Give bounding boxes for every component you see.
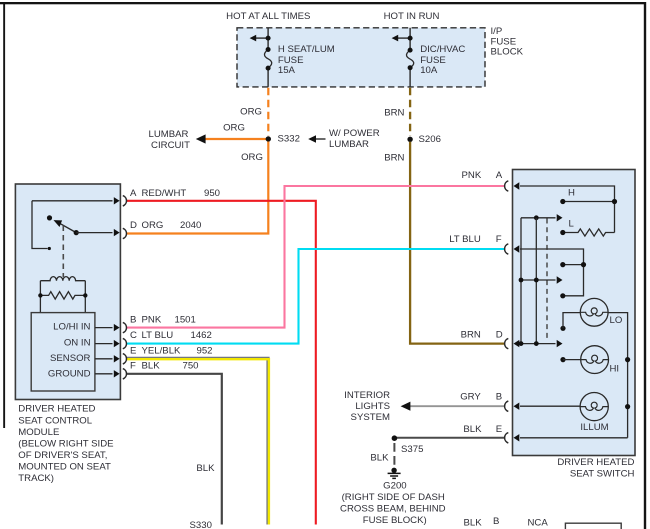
fuse F2 node upper — [408, 48, 413, 53]
module connector arc pin B — [123, 322, 127, 332]
arrowhead interior lights — [401, 402, 411, 411]
LO contact node and riser — [560, 326, 565, 331]
svg-text:S330: S330 — [190, 520, 212, 529]
svg-text:S206: S206 — [419, 134, 441, 145]
module connector arc pin F — [123, 369, 127, 379]
ON upper contact node — [560, 262, 565, 267]
svg-text:LUMBAR: LUMBAR — [149, 129, 189, 140]
fuse F1 node upper — [266, 47, 271, 52]
wire BLK switch pin E to S375 — [395, 437, 505, 439]
wire ORG solid S332 to module pin D — [127, 142, 269, 234]
splice S332 — [266, 136, 271, 141]
svg-text:HOT IN RUN: HOT IN RUN — [384, 11, 440, 22]
svg-text:CIRCUIT: CIRCUIT — [151, 140, 190, 151]
svg-text:LO: LO — [610, 315, 623, 326]
svg-text:(BELOW RIGHT SIDE: (BELOW RIGHT SIDE — [18, 438, 113, 449]
svg-text:2040: 2040 — [180, 220, 201, 231]
svg-text:PNK: PNK — [462, 170, 482, 181]
module resistor node left — [38, 293, 42, 297]
svg-text:BRN: BRN — [384, 153, 404, 164]
svg-text:B: B — [496, 392, 502, 403]
resistor H-L — [563, 229, 615, 236]
branch to upper ON contact — [565, 264, 584, 266]
wire GRY to interior lights — [409, 405, 504, 407]
svg-text:H SEAT/LUM: H SEAT/LUM — [278, 44, 335, 55]
module resistor node right — [83, 293, 87, 297]
wire BRN solid S206 to switch pin D — [410, 142, 504, 344]
junction node H row right — [612, 199, 617, 204]
node wiper1 — [534, 215, 539, 220]
switch pin E internal wire — [520, 437, 628, 439]
svg-text:952: 952 — [197, 345, 213, 356]
svg-text:D: D — [130, 220, 137, 231]
wire LO lamp to right bus — [608, 313, 628, 438]
svg-text:DRIVER HEATED: DRIVER HEATED — [557, 457, 634, 468]
svg-text:PNK: PNK — [142, 315, 162, 326]
svg-text:L: L — [569, 219, 575, 230]
svg-text:ORG: ORG — [240, 107, 262, 118]
svg-text:SENSOR: SENSOR — [50, 353, 91, 364]
splice S375 — [392, 435, 398, 441]
svg-text:LO/HI IN: LO/HI IN — [53, 322, 90, 333]
svg-text:BLK: BLK — [142, 361, 161, 372]
svg-text:A: A — [496, 170, 503, 181]
svg-text:LIGHTS: LIGHTS — [355, 401, 390, 412]
node wiper2 left — [519, 278, 524, 283]
lamp LO — [580, 298, 608, 326]
lamp HI — [581, 346, 609, 374]
module connector arc pin C — [123, 338, 127, 348]
svg-text:S332: S332 — [278, 134, 300, 145]
module connector arc pin A — [123, 196, 127, 206]
node ILLUM right bus — [625, 404, 630, 409]
wire ORG dashed from fuse F1 to S332 — [267, 88, 269, 136]
fuse F2 node top — [408, 36, 413, 41]
svg-text:950: 950 — [204, 188, 220, 199]
L contact node — [560, 230, 565, 235]
wire ORG arrow to lumbar circuit — [204, 138, 266, 140]
bus vertical 2 — [535, 218, 537, 344]
svg-text:HOT AT ALL TIMES: HOT AT ALL TIMES — [226, 11, 310, 22]
svg-text:ORG: ORG — [223, 123, 245, 134]
fuse F2 DIC/HVAC vertical wire — [409, 28, 411, 87]
module pin A internal wire with arrow — [32, 200, 113, 202]
svg-text:H: H — [568, 188, 575, 199]
svg-text:1462: 1462 — [191, 330, 212, 341]
left border — [3, 2, 5, 428]
svg-text:F: F — [496, 234, 502, 245]
svg-text:OF DRIVER'S SEAT,: OF DRIVER'S SEAT, — [18, 450, 107, 461]
svg-text:W/ POWER: W/ POWER — [329, 128, 380, 139]
wire BLK dashed to ground — [393, 443, 395, 467]
svg-text:SYSTEM: SYSTEM — [351, 412, 390, 423]
driver heated seat control module box — [15, 184, 120, 400]
svg-text:ORG: ORG — [142, 220, 164, 231]
svg-text:MODULE: MODULE — [18, 427, 59, 438]
wire BLK module pin F down to S330 — [127, 374, 222, 525]
wire PNK module pin B to switch pin A — [127, 186, 505, 328]
module heater coil — [40, 277, 85, 281]
svg-text:RED/WHT: RED/WHT — [142, 188, 187, 199]
svg-text:TRACK): TRACK) — [18, 473, 54, 484]
module connector arc pin E — [123, 354, 127, 364]
splice S206 — [407, 137, 412, 142]
driver heated seat switch box — [513, 170, 636, 456]
module switch lower contact point — [48, 247, 51, 250]
bottom cut-off box — [565, 523, 621, 529]
fuse F1 feed arrow — [256, 37, 268, 39]
module pin B internal arrow — [95, 327, 113, 329]
node pin D bus 1 — [519, 341, 524, 346]
module pin D internal wire with arrow — [76, 232, 112, 234]
HI contact node — [560, 357, 565, 362]
svg-text:D: D — [496, 329, 503, 340]
module switch pivot node — [74, 230, 79, 235]
switch connector arc pin E — [505, 433, 509, 443]
wire HI contact to lamp — [563, 359, 581, 361]
svg-text:15A: 15A — [278, 65, 296, 76]
module coil left leg — [39, 281, 41, 313]
node pin D bus 2 — [534, 341, 539, 346]
switch pin A internal wire to H network — [520, 186, 615, 233]
svg-text:LT BLU: LT BLU — [142, 330, 174, 341]
H contact node — [560, 199, 565, 204]
svg-text:BLK: BLK — [196, 463, 215, 474]
svg-text:FUSE BLOCK): FUSE BLOCK) — [363, 515, 427, 526]
bus vertical 1 — [520, 218, 522, 344]
svg-text:10A: 10A — [420, 65, 438, 76]
svg-text:750: 750 — [183, 361, 199, 372]
svg-text:BRN: BRN — [384, 108, 404, 119]
svg-text:GROUND: GROUND — [48, 369, 91, 380]
module internal wire down-left of switch — [32, 201, 48, 249]
switch pin B internal wire to ILLUM — [520, 405, 580, 407]
node HI right bus — [625, 357, 630, 362]
arrow W/ POWER LUMBAR — [316, 138, 326, 140]
svg-text:SEAT CONTROL: SEAT CONTROL — [18, 415, 92, 426]
svg-text:HI: HI — [610, 364, 620, 375]
svg-text:ILLUM: ILLUM — [580, 422, 608, 433]
wiper 3 arrow — [557, 340, 563, 347]
module pin C internal arrow — [95, 343, 113, 345]
ON lower contact node — [560, 293, 565, 298]
right border — [644, 2, 646, 529]
node ON branch — [581, 262, 586, 267]
svg-text:BLOCK: BLOCK — [491, 47, 524, 58]
lamp ILLUM — [580, 393, 608, 421]
module mechanical linkage dashed — [62, 226, 64, 278]
svg-text:ON IN: ON IN — [64, 337, 91, 348]
svg-text:C: C — [130, 330, 137, 341]
svg-text:B: B — [130, 315, 136, 326]
svg-text:BRN: BRN — [461, 329, 481, 340]
switch pin D internal wire — [520, 343, 556, 345]
wire RED/WHT module pin A down right side — [127, 201, 316, 525]
wiper 1 H/L selector — [521, 217, 556, 219]
svg-text:BLK: BLK — [464, 518, 483, 529]
svg-text:SEAT SWITCH: SEAT SWITCH — [570, 468, 635, 479]
svg-text:ORG: ORG — [241, 152, 263, 163]
H contact branch — [563, 201, 615, 203]
svg-text:(RIGHT SIDE OF DASH: (RIGHT SIDE OF DASH — [342, 492, 445, 503]
svg-text:MOUNTED ON SEAT: MOUNTED ON SEAT — [18, 461, 111, 472]
switch connector arc pin F — [505, 244, 509, 254]
module pin E internal arrow — [95, 358, 113, 360]
module coil right leg — [84, 281, 86, 313]
fuse F2 element — [407, 50, 414, 68]
svg-text:A: A — [130, 188, 137, 199]
fuse F1 node lower — [266, 66, 271, 71]
svg-text:E: E — [496, 424, 502, 435]
module pin F internal arrow — [95, 373, 113, 375]
ground G200 symbol — [391, 468, 396, 473]
svg-text:NCA: NCA — [528, 518, 549, 529]
svg-text:YEL/BLK: YEL/BLK — [142, 345, 182, 356]
fuse F1 H SEAT/LUM vertical wire — [267, 28, 269, 87]
wire LT BLU module pin C to switch pin F — [127, 249, 505, 344]
module connector arc pin D — [123, 228, 127, 238]
svg-text:INTERIOR: INTERIOR — [344, 390, 390, 401]
switch connector arc pin D — [505, 338, 509, 348]
svg-text:LUMBAR: LUMBAR — [329, 139, 369, 150]
switch connector arc pin A — [505, 181, 509, 191]
svg-text:DIC/HVAC: DIC/HVAC — [420, 44, 465, 55]
I/P fuse block box — [237, 28, 485, 87]
fuse F2 node lower — [408, 65, 413, 70]
module inner control box — [31, 313, 95, 391]
svg-text:BLK: BLK — [463, 424, 482, 435]
module sensor resistor — [40, 292, 85, 299]
wiper 2 ON selector — [521, 279, 556, 281]
svg-text:G200: G200 — [383, 481, 406, 492]
svg-text:F: F — [130, 361, 136, 372]
wire YEL/BLK module pin E down (black stripe edge) — [127, 358, 269, 524]
svg-text:B: B — [493, 516, 499, 527]
module switch upper contact — [47, 215, 52, 220]
top border — [0, 2, 646, 4]
svg-text:CROSS BEAM, BEHIND: CROSS BEAM, BEHIND — [340, 504, 446, 515]
svg-text:BLK: BLK — [370, 453, 389, 464]
svg-text:E: E — [130, 345, 136, 356]
svg-text:LT BLU: LT BLU — [449, 234, 481, 245]
fuse F1 node top — [266, 36, 271, 41]
svg-text:1501: 1501 — [175, 315, 196, 326]
svg-text:GRY: GRY — [460, 392, 481, 403]
fuse F1 element — [265, 50, 272, 69]
node wiper2 right — [534, 278, 539, 283]
module switch lever with arrowhead — [57, 222, 76, 233]
mechanical linkage dashed — [546, 219, 548, 340]
svg-text:S375: S375 — [401, 444, 423, 455]
fuse F2 feed arrow — [398, 37, 410, 39]
svg-text:DRIVER HEATED: DRIVER HEATED — [18, 404, 95, 415]
switch connector arc pin B — [505, 401, 509, 411]
wire BRN dashed from fuse F2 to S206 — [409, 88, 411, 136]
switch pin F internal wire — [520, 249, 584, 296]
arrowhead lumbar circuit — [196, 134, 206, 143]
